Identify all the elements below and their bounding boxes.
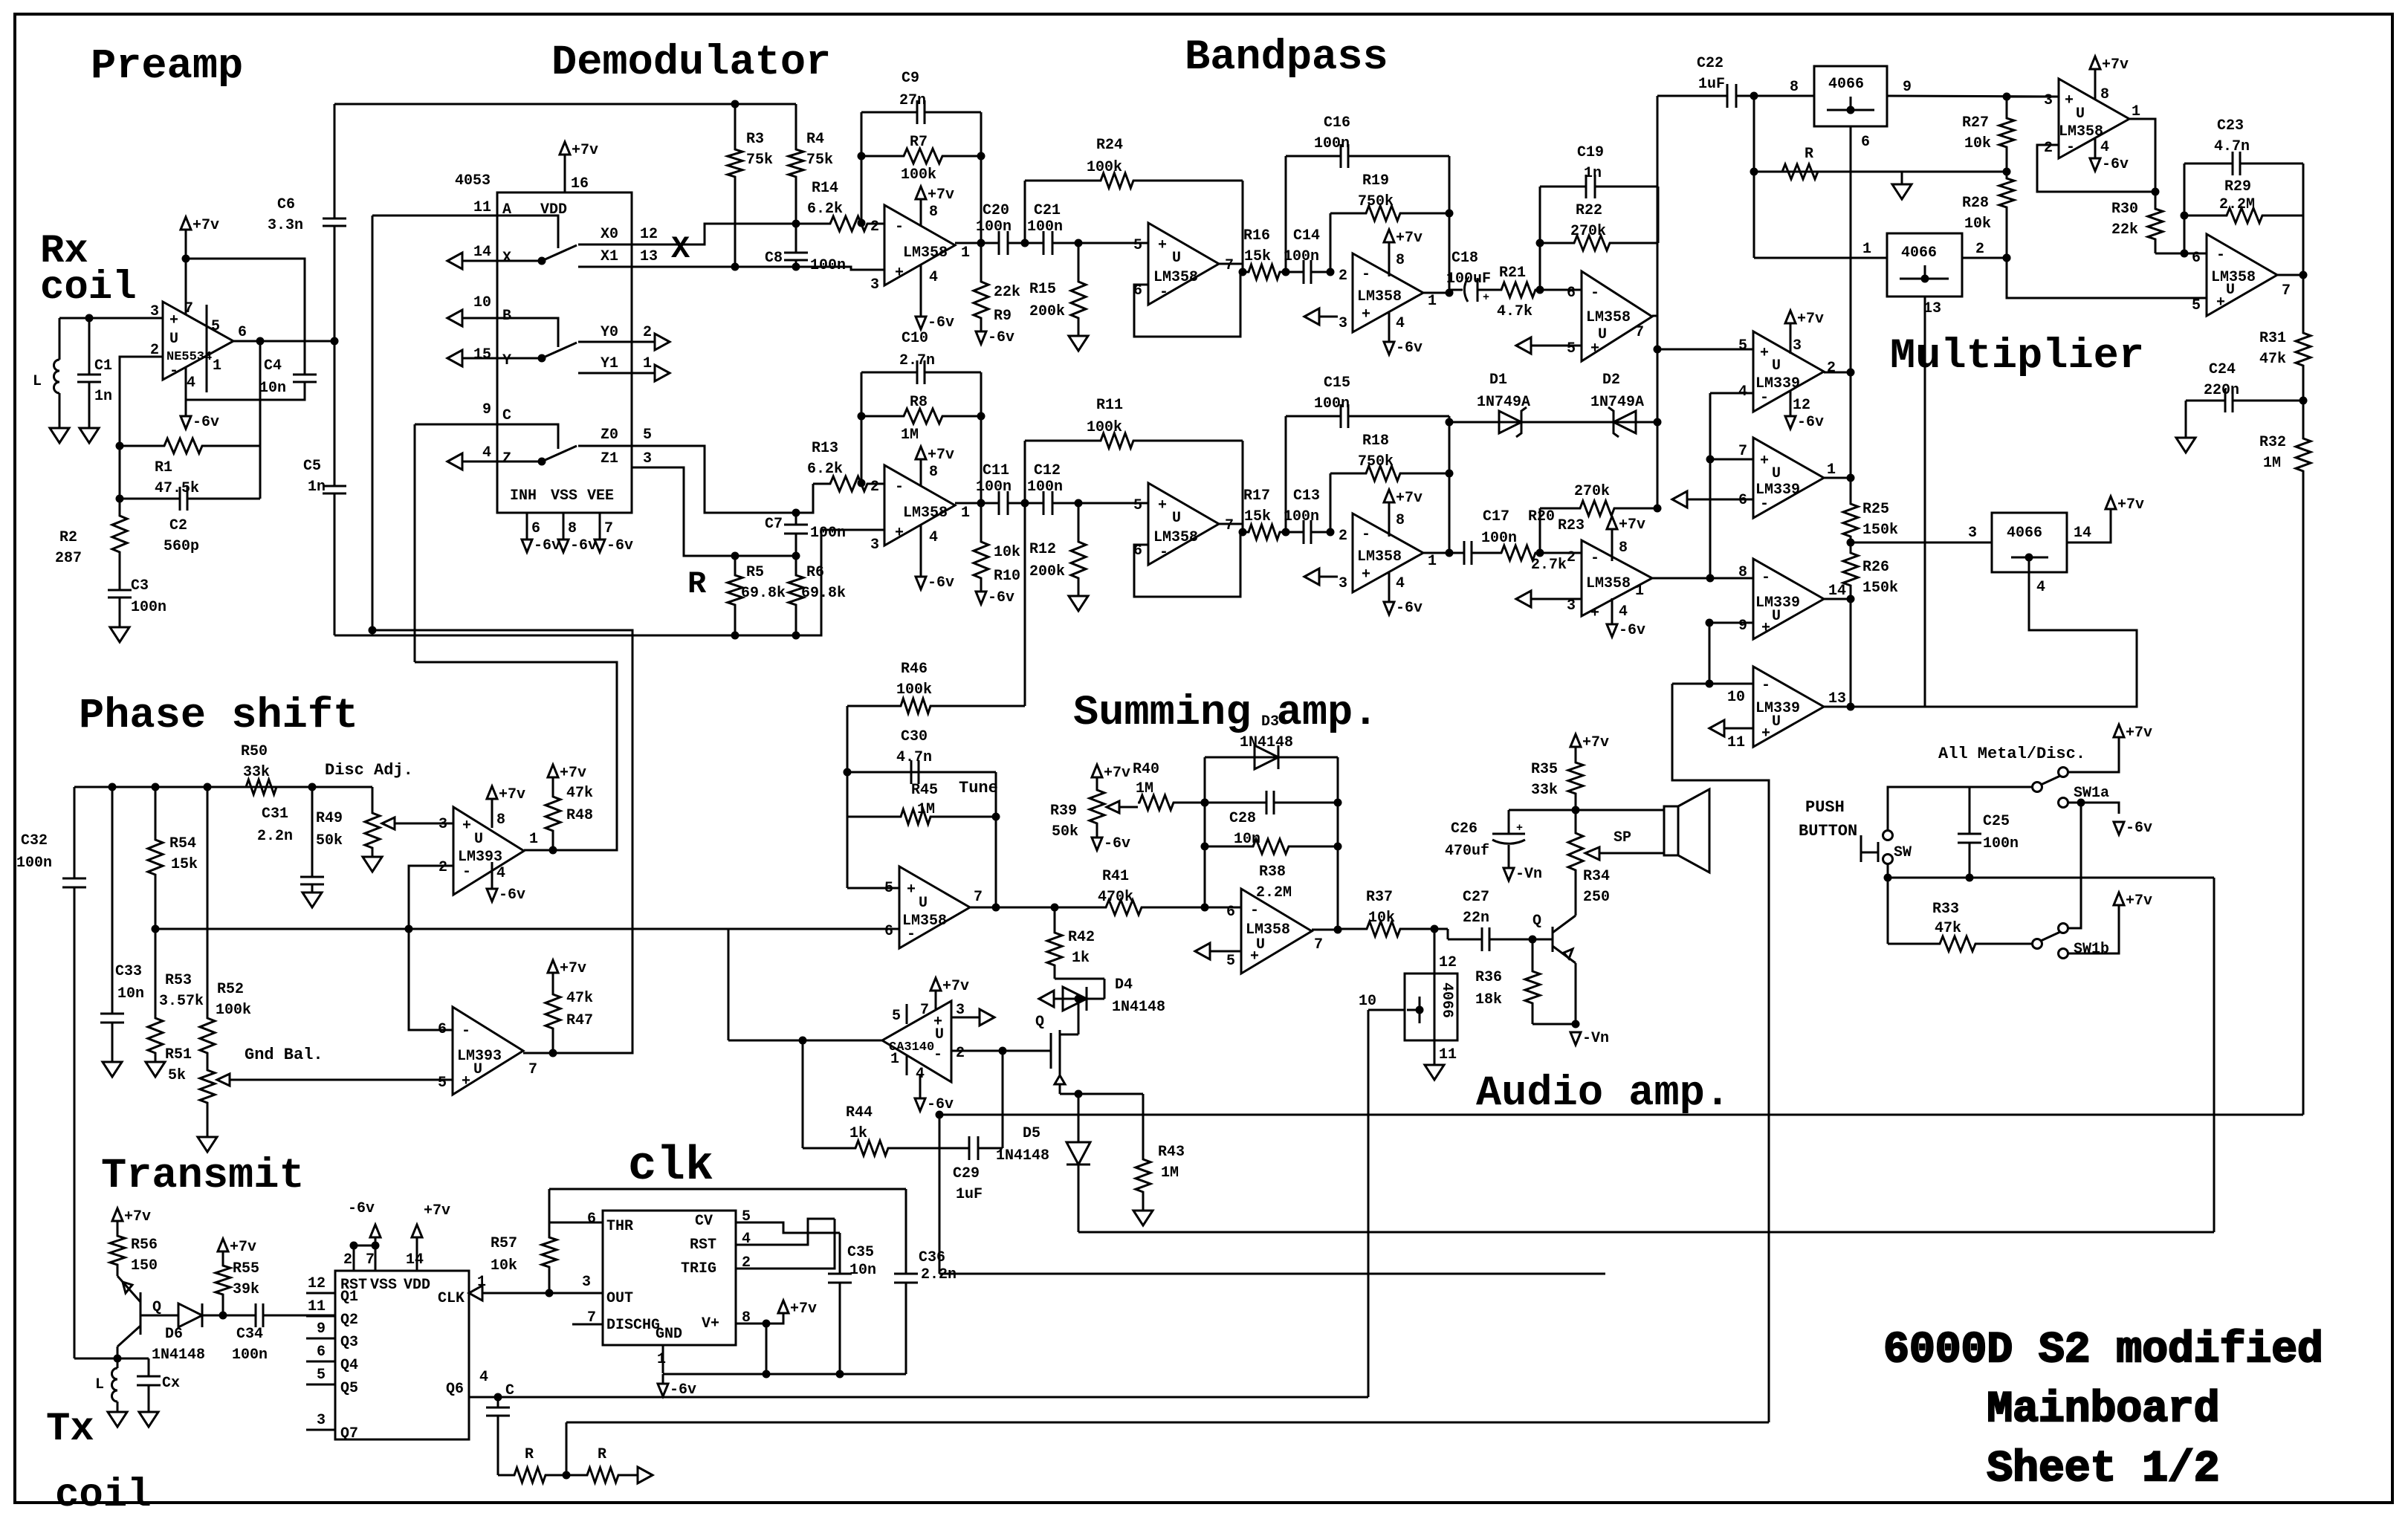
comparator U LM393 B [453,1007,523,1095]
svg-text:C18: C18 [1451,250,1478,267]
svg-text:All Metal/Disc.: All Metal/Disc. [1938,745,2085,763]
wire +7v stem U3 [1388,511,1391,537]
+7v at R35 [1570,734,1581,747]
svg-text:+: + [1761,620,1770,637]
svg-text:-6v: -6v [928,314,954,331]
svg-text:BUTTON: BUTTON [1799,822,1857,840]
node 339B out [1847,474,1855,482]
node emitter R36 [1572,1020,1580,1029]
svg-text:100uF: 100uF [1446,271,1491,288]
wire output down [259,341,262,499]
svg-text:Q: Q [1532,913,1541,930]
capacitor C12 [1025,502,1043,505]
svg-text:1N4148: 1N4148 [152,1347,205,1364]
capacitor C7 100n [795,513,797,525]
capacitor C19 1n [1540,186,1586,188]
wire GND stub [662,1345,664,1373]
svg-text:R55: R55 [233,1260,259,1277]
op-amp U CA3140 [882,1001,951,1082]
svg-text:9: 9 [317,1321,326,1338]
svg-text:+7v: +7v [560,960,586,977]
svg-text:1M: 1M [2263,455,2281,472]
svg-text:4: 4 [187,375,195,392]
svg-text:100n: 100n [1284,248,1319,265]
svg-text:4: 4 [496,865,505,882]
comparator U LM339 A [1753,331,1824,412]
transistor Q transmit [140,1292,142,1335]
svg-text:9: 9 [482,401,491,418]
svg-text:R: R [687,566,707,602]
svg-text:3: 3 [1968,525,1977,542]
svg-text:100n: 100n [232,1347,268,1364]
resistor R20 2.7k [1494,545,1540,560]
svg-text:6: 6 [531,520,540,537]
svg-text:7: 7 [1635,324,1644,341]
wire Q3 stub [306,1338,335,1340]
svg-text:-: - [1761,569,1770,586]
svg-text:LM358: LM358 [903,505,948,522]
resistor R29 2.2M [2184,208,2303,223]
wire D5 to bus [1078,1164,1080,1232]
wire THR [549,1222,603,1234]
resistor R10 [974,503,988,592]
svg-text:3: 3 [582,1274,591,1291]
node R35 bottom [1572,806,1580,814]
wire jog to C27 [1434,928,1448,930]
-6v at U LM358 R4 [1607,624,1617,637]
svg-text:Q: Q [152,1299,161,1316]
+7v at U LM358 R4 [1607,516,1617,529]
svg-text:3: 3 [1793,337,1802,354]
node phase rail 209 [152,783,160,791]
svg-text:3: 3 [438,816,447,833]
node pin2 C29 [999,1047,1007,1055]
resistor R37 10k [1338,921,1434,936]
svg-text:U: U [2076,106,2085,123]
node 339C pin9 [1706,619,1714,627]
svg-text:1: 1 [1635,583,1644,600]
wire source to D5 [1060,1093,1078,1095]
wire +7v stem 393A [491,808,493,828]
svg-text:8: 8 [1619,540,1628,557]
svg-text:4066: 4066 [1438,982,1455,1018]
-6v under R10 [976,592,986,604]
resistor R4 75k [789,104,803,224]
wire RST [736,1219,835,1245]
svg-text:+7v: +7v [2117,496,2144,514]
svg-text:5: 5 [1133,237,1142,254]
resistor R31 47k [2296,275,2311,401]
wire SW1a to SW1b [2068,803,2081,928]
-Vn under C26 [1504,868,1514,881]
op-amp U LM358 X4 [1582,271,1652,361]
wire R24 left vert [1024,441,1026,503]
node R42 top [1051,904,1059,912]
svg-text:R43: R43 [1158,1144,1185,1161]
svg-text:100n: 100n [1314,395,1350,412]
svg-text:13: 13 [1923,300,1941,317]
+7v at R56 [112,1208,123,1221]
svg-text:VSS: VSS [370,1277,397,1294]
-6v at LM393 A [487,889,497,901]
wire stage2 out [1219,523,1243,525]
svg-text:2: 2 [438,859,447,876]
diode D6 1N4148 [178,1303,202,1327]
svg-text:11: 11 [1439,1046,1457,1063]
wire U4 pin5 [1550,345,1582,347]
svg-text:R10: R10 [994,568,1020,585]
capacitor C16 [1286,155,1341,158]
node C16 left [1282,528,1290,537]
svg-text:C28: C28 [1229,810,1256,827]
svg-text:Gnd Bal.: Gnd Bal. [245,1046,323,1064]
svg-text:1k: 1k [1072,950,1090,967]
op-amp U LM358 R1 (stage 1) [884,465,955,545]
wire Q7 stub [306,1429,335,1431]
svg-text:R4: R4 [806,131,824,148]
svg-text:L: L [33,373,42,390]
svg-text:7: 7 [366,1251,375,1269]
svg-text:R1: R1 [155,459,172,476]
svg-text:5: 5 [1738,337,1747,354]
svg-text:Preamp: Preamp [91,43,243,91]
svg-text:7: 7 [1225,517,1234,534]
wire -6v stem [920,525,922,577]
wire 4066#2 control down [1851,297,1925,707]
svg-text:+: + [1590,340,1599,357]
svg-text:C16: C16 [1324,114,1350,132]
svg-text:2.2M: 2.2M [1256,884,1292,901]
resistor R47 47k [546,982,560,1053]
svg-text:+7v: +7v [560,765,586,782]
svg-text:-6v: -6v [988,329,1014,346]
svg-text:1: 1 [213,357,221,375]
svg-text:C9: C9 [902,70,919,87]
svg-text:4053: 4053 [455,172,491,189]
svg-text:470uf: 470uf [1445,843,1489,860]
wire C select entry [415,424,558,449]
resistor R45 1M [847,809,996,824]
svg-text:2: 2 [956,1045,965,1062]
svg-text:22n: 22n [1463,910,1489,927]
node 339C out [1847,595,1855,603]
wire Z common [462,461,542,463]
zener D2 1N749A [1614,411,1636,433]
node S2 pin6 [1201,904,1209,912]
capacitor C6 3.3n [334,104,336,218]
wire DISCHG stub [572,1324,603,1326]
resistor R6 69.8k [789,556,803,635]
wire R33 left [1887,878,1889,944]
node C27 R36 [1529,936,1537,944]
wire transmit bottom rail [74,1358,149,1360]
svg-text:15k: 15k [1244,248,1271,265]
svg-text:R39: R39 [1050,803,1077,820]
capacitor C27 22n [1457,939,1482,941]
node 393 inputs [405,925,413,933]
svg-text:C19: C19 [1577,144,1604,161]
node 339A out [1847,369,1855,377]
wire -6v stem [920,265,922,317]
wire stage2 fb [1134,532,1240,597]
wire R36 bottom [1532,1023,1576,1026]
svg-text:4: 4 [2036,579,2045,596]
svg-text:2.2M: 2.2M [2219,196,2255,213]
wire to Q base [1532,939,1553,941]
svg-text:C11: C11 [983,462,1009,479]
wire R51 gnd [207,1127,209,1137]
svg-text:C33: C33 [115,963,142,980]
wire S1 pin6 drop [728,929,730,1040]
arrow Y1 [655,365,670,381]
wire 4066#1 control [1850,126,1852,372]
node C21 R15 [1075,499,1083,508]
+7v VDD 4053 [560,142,570,155]
wire stage2 out [1219,263,1243,265]
svg-text:OUT: OUT [606,1290,633,1307]
resistor R53 3.57k [148,929,163,1062]
diode D5 1N4148 [1067,1142,1090,1164]
resistor R42 1k [1047,907,1062,979]
wire -6v stem 339A [1790,390,1792,416]
+7v at LM393 A [487,786,497,799]
svg-text:+7v: +7v [2102,56,2129,74]
svg-text:+: + [462,1073,470,1090]
wire R24 right vert [1242,181,1244,272]
svg-text:100n: 100n [1284,508,1319,525]
-6v at CA3140 [915,1098,925,1111]
wire M1 pin2 fb [2037,145,2155,192]
svg-text:R46: R46 [901,661,928,678]
node C2 left [116,495,124,503]
ground 4066#4 [1425,1065,1444,1080]
capacitor C1 1n [88,318,91,375]
capacitor C8 100n [795,224,797,253]
IC 4066 #3 [1992,513,2067,572]
svg-text:5k: 5k [168,1067,186,1084]
svg-text:287: 287 [55,550,82,567]
wire U4 out up [1652,96,1657,316]
resistor R13 [813,476,884,491]
wire V+ [736,1312,783,1324]
svg-text:470k: 470k [1098,889,1133,906]
svg-text:D4: D4 [1115,976,1133,994]
svg-text:3.3n: 3.3n [268,217,303,234]
node 4066#2 R28 [2003,254,2011,262]
+7v at SW1a [2114,725,2124,737]
node fb left top [858,152,866,161]
-6v at M1 [2090,158,2100,171]
node fb pin2 [858,479,866,487]
wire R46 right vert [1024,503,1026,706]
node R20 right [1536,549,1544,557]
diode D4 1N4148 [1063,987,1087,1011]
ground under R12 [1069,596,1088,611]
-6v 4053 pin 8 [558,540,569,552]
svg-text:7: 7 [974,889,983,906]
svg-text:6: 6 [587,1211,596,1228]
wire X1 [578,267,884,270]
wire S1 pin6 long [155,928,899,930]
polarized capacitor C26 470uf [1508,810,1510,834]
svg-text:4066: 4066 [2007,525,2042,542]
node fb R38 [1201,843,1209,851]
JFET Q summing [1050,1033,1052,1069]
node S1 out fb [992,904,1000,912]
svg-text:R12: R12 [1029,541,1056,558]
wire SW1a throw1 [2068,746,2119,772]
-6v at SW1a [2114,822,2124,835]
svg-text:5: 5 [438,1075,447,1092]
transistor Q audio [1552,927,1554,952]
wire to stage2 pin5 [1078,242,1148,244]
svg-text:C6: C6 [277,196,295,213]
svg-text:-6v: -6v [1797,414,1824,431]
wire 339A pin5 [1657,349,1753,351]
wire R26 to 339D out [1850,599,1852,707]
vertical bus 1264 [939,1115,941,1274]
resistor R41 470k [1055,900,1205,915]
svg-text:C13: C13 [1293,487,1320,505]
+7v at NE5534 [181,217,191,230]
node R19 left [1327,528,1335,537]
svg-text:C34: C34 [236,1326,263,1343]
svg-text:-6v: -6v [2126,820,2152,837]
svg-text:10k: 10k [1368,910,1395,927]
capacitor C23 4.7n [2184,163,2233,165]
node R45 right [992,813,1000,821]
arrow U4 pin5 [1516,337,1531,354]
svg-text:C: C [502,407,511,424]
wire U4 pin6 [1540,289,1582,291]
svg-text:-: - [1760,496,1769,513]
svg-text:U: U [1172,510,1181,527]
svg-text:100n: 100n [1481,530,1517,547]
svg-text:22k: 22k [2111,221,2138,239]
svg-text:INH: INH [510,487,537,505]
capacitor C (clk) [497,1397,499,1408]
wire -6v stem U3 [1388,312,1391,342]
svg-text:1uF: 1uF [956,1186,983,1203]
svg-text:50k: 50k [1052,823,1078,840]
svg-text:-6v: -6v [534,537,560,554]
comparator U LM339 B [1753,438,1824,518]
resistor R36 18k [1525,939,1540,1024]
wire phase rail [74,786,372,788]
svg-text:Tx: Tx [46,1407,94,1452]
wire D6 to C34 [202,1315,250,1317]
wire M1 pin3 [2007,96,2059,98]
wire 339B out [1824,477,1851,479]
svg-text:C26: C26 [1451,820,1478,838]
bus Q-D5 row [1078,1231,2214,1234]
svg-text:1: 1 [1862,241,1871,258]
node phase rail 151 [109,783,117,791]
node D2 right [1654,418,1662,427]
svg-text:+: + [1362,306,1370,323]
node fb right [977,412,985,421]
potentiometer R39 50k [1090,786,1104,838]
op-amp U LM358 M1 [2059,79,2129,158]
svg-text:Sheet 1/2: Sheet 1/2 [1987,1445,2219,1494]
bus audio control [939,1114,2303,1116]
wire fb left [861,156,863,223]
svg-text:C3: C3 [131,577,149,595]
svg-text:CV: CV [695,1213,713,1230]
resistor R22 270k [1540,236,1658,250]
svg-text:+7v: +7v [1104,765,1130,782]
svg-text:+7v: +7v [928,187,954,204]
svg-text:50k: 50k [316,832,343,849]
svg-text:100n: 100n [976,218,1012,236]
wire -6v stem M1 [2094,138,2097,158]
node SW1a throw2 [2077,799,2085,807]
svg-text:-: - [895,218,904,236]
resistor R14 [813,216,884,231]
node R6 Z0 [792,509,800,517]
svg-text:R5: R5 [746,564,764,581]
svg-text:C36: C36 [919,1249,945,1266]
svg-text:12: 12 [1439,954,1457,971]
capacitor C33 10n [111,787,114,1014]
svg-text:coil: coil [55,1473,152,1516]
svg-text:DISCHG: DISCHG [606,1317,660,1334]
svg-text:C23: C23 [2217,117,2244,135]
svg-text:10n: 10n [117,985,144,1002]
wire 339C out [1824,598,1851,600]
svg-text:100k: 100k [901,166,936,184]
node C24 junction [2299,397,2308,405]
svg-text:15: 15 [473,346,491,363]
wire +7v stem [920,468,922,487]
svg-text:10k: 10k [1964,135,1991,152]
lever Z [542,446,577,461]
svg-text:R29: R29 [2224,178,2251,195]
svg-text:+: + [1760,453,1769,470]
svg-text:7: 7 [1225,257,1234,274]
svg-text:U: U [1772,357,1781,375]
svg-text:9: 9 [1738,618,1747,635]
capacitor C9 27n [861,111,917,114]
svg-text:100n: 100n [810,525,846,542]
svg-text:clk: clk [628,1140,713,1193]
wire L Tx bottom [117,1402,119,1412]
svg-text:+7v: +7v [2126,725,2152,742]
wire 4066#1 out [1887,96,2059,97]
+7v at U LM358 X1 [916,187,926,199]
wire R44 left vert [802,1040,804,1148]
svg-text:100n: 100n [1027,479,1063,496]
svg-text:C22: C22 [1697,55,1724,72]
+7v at U LM358 R1 [916,447,926,459]
wire Q4 stub [306,1361,335,1363]
svg-text:R24: R24 [1096,137,1123,154]
node RST tie [350,1242,358,1250]
wire V+ to GND row [766,1324,768,1374]
svg-text:X: X [502,250,511,267]
svg-text:U: U [2226,282,2235,299]
wire 339C pin9 [1709,622,1753,624]
svg-text:+7v: +7v [942,978,969,995]
wire to stage2 pin5 [1078,502,1148,505]
arrow U LM358 X3 pin3 [1304,308,1319,325]
svg-text:14: 14 [1828,583,1846,600]
svg-text:V+: V+ [702,1315,719,1332]
svg-text:R36: R36 [1475,969,1502,986]
svg-text:-6v: -6v [928,574,954,592]
wire Q base [140,1315,178,1317]
resistor R46 100k [847,699,1025,713]
